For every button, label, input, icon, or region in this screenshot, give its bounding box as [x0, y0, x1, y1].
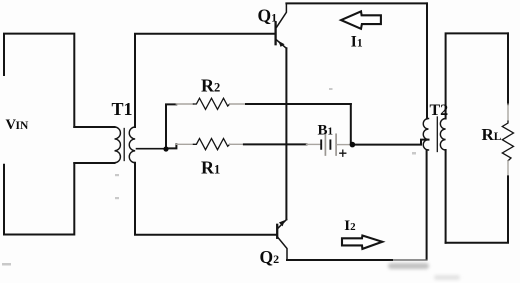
wire T2 secondary bottom down — [445, 150, 447, 243]
svg-text:B1: B1 — [318, 123, 334, 139]
transistor Q2 — [277, 219, 287, 259]
wire T1 secondary top to Q1 base — [135, 34, 275, 127]
B1 plate short black — [320, 140, 322, 148]
wire R2 right to corner above battery — [246, 103, 351, 105]
wire Q1 emitter down to Q2 emitter — [285, 48, 287, 219]
wire Q1 collector to top rail — [286, 2, 427, 4]
Q2 emitter arrow — [279, 220, 285, 226]
wire T1 center tap to node A — [137, 148, 167, 150]
wire RL bottom to load bottom — [446, 176, 508, 242]
wire R1 right to battery — [244, 143, 307, 145]
wire T1 primary bottom lead — [74, 162, 114, 164]
svg-text:T2: T2 — [430, 102, 449, 119]
shadow artifact bottom right — [388, 263, 460, 280]
current arrow I1 — [341, 11, 381, 28]
battery B1 — [307, 134, 350, 156]
T2 primary winding — [423, 119, 428, 151]
svg-text:R1: R1 — [201, 157, 220, 177]
wire Q2 collector bottom rail faded segment — [394, 259, 427, 261]
svg-text:Q1: Q1 — [258, 5, 278, 25]
wire Q2 collector bottom rail — [287, 259, 394, 261]
T2 core — [436, 117, 438, 152]
svg-text:VIN: VIN — [6, 117, 29, 133]
wire down from R2 corner to node B — [350, 104, 352, 145]
svg-text:I2: I2 — [344, 218, 356, 234]
current arrow I2 — [342, 236, 382, 249]
resistor RL — [502, 104, 513, 176]
node A junction dot — [163, 146, 168, 151]
T1 secondary winding — [129, 127, 135, 163]
Q2 collector — [277, 237, 287, 259]
faint speck artifacts — [2, 88, 416, 266]
Q1 base bar — [274, 23, 276, 45]
T1 primary winding — [115, 127, 121, 163]
wire node B to T2 center tap — [354, 140, 429, 145]
resistor R2 — [176, 98, 246, 109]
wire node A up to R2 — [166, 104, 176, 148]
wire load top down to RL — [507, 33, 509, 104]
node B junction dot — [350, 142, 356, 148]
transistor Q1 — [276, 3, 287, 48]
Q1 collector — [277, 3, 287, 27]
svg-text:Q2: Q2 — [260, 247, 280, 267]
T2 secondary winding — [440, 119, 445, 151]
resistor R1 — [176, 139, 244, 150]
Q1 emitter — [277, 40, 287, 48]
transformer T2 — [423, 117, 445, 152]
wire T1 primary top lead — [74, 126, 114, 128]
T1 core — [123, 129, 125, 161]
Q1 emitter arrow — [278, 41, 284, 47]
svg-text:T1: T1 — [112, 99, 133, 119]
svg-text:I1: I1 — [351, 33, 363, 50]
B1 plus sign — [340, 150, 346, 156]
Q2 base bar — [276, 225, 278, 238]
voltage source VIN box — [4, 34, 74, 235]
wire T1 secondary bottom to Q2 base — [135, 163, 276, 235]
svg-text:R2: R2 — [201, 75, 220, 95]
transformer T1 — [115, 127, 136, 163]
wire top rail down to T2 primary top — [426, 3, 428, 118]
B1 plate short black — [329, 140, 331, 148]
B1 plate long gray — [324, 134, 326, 155]
svg-text:RL: RL — [482, 125, 502, 144]
Q2 emitter — [277, 219, 286, 228]
B1 plate long gray — [335, 134, 337, 155]
wire bottom rail up to T2 primary bottom — [426, 150, 428, 259]
wire T2 secondary top to load top — [446, 33, 508, 118]
wire node A to R1 (with jog) — [168, 144, 176, 148]
